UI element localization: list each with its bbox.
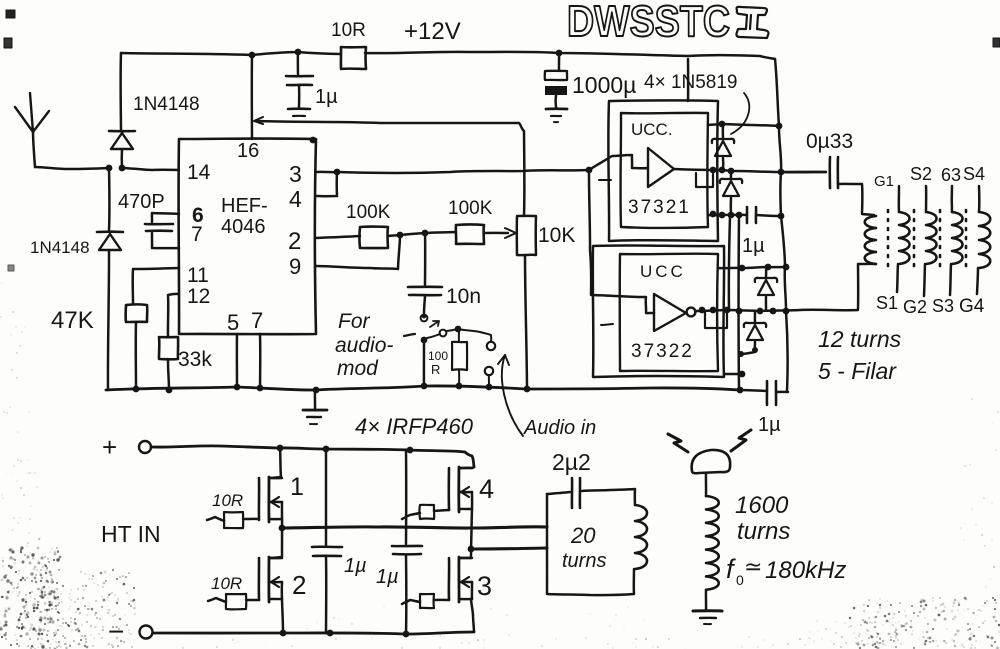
transistor Q3 IRFP460	[461, 549, 471, 558]
wire pin7 to rail	[259, 334, 262, 388]
svg-text:9: 9	[289, 254, 301, 279]
wire U2 output	[674, 169, 826, 172]
wire vertical mid-bus a	[729, 216, 730, 310]
wire antenna to node	[35, 167, 109, 169]
wire Q2 source to rail	[282, 599, 283, 633]
IC U2 UCC37321 outer box	[608, 100, 718, 241]
wire pin16 VDD	[251, 55, 254, 139]
svg-text:1N4148: 1N4148	[30, 238, 90, 257]
transistor Q4 IRFP460	[461, 467, 474, 468]
svg-text:20: 20	[570, 523, 596, 548]
transformer secondary S4G4	[978, 186, 981, 212]
wire input U2	[589, 155, 648, 170]
svg-text:4046: 4046	[221, 216, 266, 238]
capacitor 470p	[152, 213, 179, 222]
node D4 bottom	[752, 347, 758, 353]
wire input U3	[589, 170, 654, 313]
svg-text:0µ33: 0µ33	[806, 130, 853, 153]
wire pin11 to 47K	[133, 268, 179, 304]
wire pin3	[316, 171, 337, 174]
ground (1000µ)	[546, 107, 567, 110]
node rail dots	[133, 386, 140, 393]
svg-text:−: −	[108, 616, 124, 647]
svg-text:3: 3	[477, 571, 492, 601]
svg-text:37322: 37322	[631, 341, 694, 362]
arrow Audio in	[502, 355, 523, 436]
resistor R 47K	[126, 304, 148, 322]
node driver input split	[586, 167, 593, 174]
coil secondary 1600 turns	[705, 473, 708, 496]
node VDD junction dots	[249, 52, 256, 59]
wire primary bottom	[858, 264, 876, 309]
svg-text:Audio in: Audio in	[523, 417, 596, 439]
capacitor 0µ33	[781, 171, 826, 174]
transistor Q2 IRFP460	[269, 528, 282, 558]
resistor R 100R	[458, 329, 460, 341]
svg-text:+: +	[102, 432, 117, 462]
svg-text:47K: 47K	[51, 307, 94, 334]
wire jumper vertical	[423, 343, 426, 386]
node output B dots	[699, 307, 706, 314]
wire U3 output	[695, 310, 858, 311]
wire Q1 source to node A	[281, 519, 284, 528]
svg-text:HT IN: HT IN	[101, 521, 161, 547]
node bridge A	[279, 525, 286, 532]
ground (secondary)	[693, 609, 722, 612]
svg-text:G4: G4	[959, 296, 985, 317]
node y215 dots	[710, 211, 717, 218]
capacitor 10n	[424, 233, 427, 285]
resistor Rg2 10R	[246, 599, 259, 602]
svg-text:4: 4	[479, 474, 494, 504]
IC U1 HEF-4046 box	[179, 138, 316, 334]
svg-text:7: 7	[191, 223, 203, 246]
node HT- dots	[280, 630, 287, 637]
svg-text:180kHz: 180kHz	[765, 557, 846, 584]
svg-text:S1: S1	[876, 293, 898, 313]
wire wiper to pot	[484, 232, 508, 235]
wire 47K to rail	[134, 322, 137, 389]
diode D3 1N5819	[765, 267, 768, 277]
svg-text:37321: 37321	[628, 197, 691, 218]
capacitor 1µ (lower bypass)	[766, 381, 769, 405]
resistor R 10R (supply)	[341, 47, 366, 69]
transformer secondary G3S3	[951, 186, 954, 212]
node antenna junction	[106, 165, 113, 172]
svg-text:2: 2	[288, 228, 301, 255]
svg-text:12 turns: 12 turns	[818, 326, 902, 352]
svg-text:10K: 10K	[538, 224, 575, 247]
diode D4 1N5819	[754, 311, 757, 322]
transformer secondary S2G2	[925, 186, 928, 212]
svg-text:2: 2	[292, 570, 306, 600]
wire Q3 source to rail	[471, 599, 474, 632]
jumper circle top	[421, 315, 428, 322]
diode D5 1N4148 (upper)	[119, 53, 122, 130]
svg-text:100: 100	[428, 349, 448, 363]
svg-text:audio-: audio-	[335, 334, 393, 357]
svg-text:11: 11	[187, 264, 209, 287]
svg-text:1600: 1600	[735, 492, 789, 519]
svg-text:1µ: 1µ	[758, 414, 781, 436]
svg-text:16: 16	[237, 140, 259, 162]
svg-text:33k: 33k	[178, 348, 212, 371]
spark right	[731, 430, 751, 451]
ground (main)	[314, 391, 317, 409]
svg-text:1µ: 1µ	[376, 566, 399, 588]
svg-text:+12V: +12V	[404, 18, 461, 45]
stub lead left of jumper	[404, 334, 415, 336]
wire y215 (U2 gnd/bypass)	[708, 213, 747, 216]
svg-text:G1: G1	[874, 173, 894, 190]
svg-text:≃: ≃	[744, 554, 762, 579]
IC U2 inner box	[621, 113, 708, 228]
svg-text:12: 12	[187, 285, 210, 308]
svg-text:turns: turns	[562, 550, 606, 572]
node output A dots	[710, 167, 717, 174]
svg-text:S3: S3	[932, 296, 954, 316]
wire VCO control (y120)	[256, 121, 524, 216]
transistor Q1 IRFP460	[269, 448, 281, 478]
buffer triangle U2	[648, 148, 674, 187]
wire U3 gnd (y374)	[724, 373, 742, 376]
wire 100R node to audio circle	[458, 329, 491, 341]
svg-text:470P: 470P	[118, 191, 165, 213]
svg-text:1N4148: 1N4148	[133, 94, 200, 115]
wire jumper to circle	[427, 334, 440, 338]
svg-text:1: 1	[290, 473, 304, 501]
stub enable U2	[599, 179, 611, 181]
node pin16 corner dot	[310, 137, 317, 144]
wire 100K to node	[388, 235, 400, 236]
wire 33k to rail	[168, 359, 169, 390]
svg-text:14: 14	[187, 161, 211, 184]
svg-text:1µ: 1µ	[742, 235, 765, 257]
svg-text:2µ2: 2µ2	[552, 449, 591, 475]
wire pin4 loop	[317, 173, 337, 196]
wire node to 100K2	[400, 233, 425, 235]
svg-text:1µ: 1µ	[315, 86, 338, 108]
svg-text:4× IRFP460: 4× IRFP460	[355, 414, 474, 439]
svg-text:100K: 100K	[346, 202, 391, 223]
label II roman numeral	[736, 7, 768, 38]
antenna	[33, 132, 35, 167]
svg-text:UCC: UCC	[640, 262, 686, 281]
wire pin3 to driver input	[337, 170, 589, 173]
svg-text:4: 4	[289, 186, 302, 212]
resistor Rg4	[434, 510, 449, 511]
IC U3 UCC37322 outer box	[593, 245, 724, 377]
wire node to pin14	[122, 168, 179, 170]
audio connector circle upper	[487, 342, 495, 350]
wire +12V top rail	[121, 52, 341, 55]
svg-text:3: 3	[289, 161, 302, 187]
node y374	[739, 371, 746, 378]
capacitor 1000µ	[558, 53, 561, 70]
toroid topload	[692, 450, 731, 473]
stub enable U3	[601, 324, 613, 325]
svg-text:S2: S2	[910, 164, 932, 184]
svg-text:mod: mod	[337, 357, 379, 380]
wire VCC feed U2	[687, 59, 690, 101]
svg-text:f: f	[726, 554, 736, 584]
svg-text:R: R	[431, 362, 440, 377]
capacitor 1µ (upper bypass)	[746, 207, 749, 223]
transformer core dashes	[887, 210, 890, 272]
jumper circle mid	[440, 330, 447, 337]
capacitor C2 1µ (bus)	[405, 450, 408, 544]
potentiometer 10K	[517, 216, 536, 255]
svg-text:1000µ: 1000µ	[572, 72, 636, 98]
wire node A to tank	[282, 527, 547, 528]
wire HT+ rail	[151, 446, 474, 467]
node pin3 junction	[334, 169, 341, 176]
svg-text:UCC.: UCC.	[631, 120, 673, 139]
wire ground rail (bottom of logic)	[106, 386, 740, 390]
wire pin12 to 33k	[168, 294, 179, 336]
resistor R 33k	[159, 337, 178, 359]
svg-text:63: 63	[941, 165, 961, 185]
svg-text:100K: 100K	[448, 198, 493, 219]
primary tank loop 20 turns	[547, 492, 570, 494]
svg-text:1µ: 1µ	[344, 555, 367, 577]
capacitor 2µ2	[571, 478, 574, 508]
resistor R 100K (first)	[359, 227, 388, 248]
resistor R 100K (second)	[456, 225, 484, 244]
inverter bubble U3	[687, 308, 696, 317]
svg-text:7: 7	[251, 308, 263, 333]
node 100R top	[455, 326, 462, 333]
svg-text:10n: 10n	[446, 285, 481, 308]
diode D6 1N4148 (lower)	[108, 168, 111, 231]
wire node B to tank	[471, 548, 547, 549]
wire pin9 loop	[316, 237, 400, 269]
bracket U3 output	[705, 312, 727, 328]
arrow to diodes	[731, 93, 749, 134]
node bridge B	[468, 546, 475, 553]
capacitor 1µ (supply filter)	[297, 52, 300, 74]
arrow into pin16 node	[254, 117, 263, 124]
svg-text:S4: S4	[963, 164, 985, 184]
transformer primary winding	[865, 216, 876, 264]
wire +12V right bus	[775, 59, 788, 391]
wire Q4 source to node B	[471, 509, 472, 548]
svg-text:DWSSTC: DWSSTC	[567, 0, 730, 46]
wire circle to 100R top	[446, 329, 457, 331]
svg-text:For: For	[338, 310, 371, 333]
svg-text:5: 5	[227, 310, 239, 335]
IC U3 inner box	[620, 254, 718, 372]
node after first 100K	[397, 232, 404, 239]
capacitor C1 1µ (bus)	[325, 449, 328, 545]
arrow jumper	[430, 321, 439, 327]
svg-text:0: 0	[736, 572, 744, 588]
wire U2 VCC pin	[708, 124, 722, 125]
wire U3 VCC pin (y267)	[718, 267, 788, 268]
node jumper mid	[421, 337, 428, 344]
audio connector circle lower	[485, 367, 493, 375]
diode D2 1N5819	[730, 172, 733, 178]
wire HT- rail	[153, 632, 474, 634]
svg-text:4× 1N5819: 4× 1N5819	[644, 72, 738, 93]
svg-text:10R: 10R	[212, 491, 243, 510]
wire rail to lower bypass	[740, 390, 767, 391]
svg-text:10R: 10R	[211, 574, 242, 593]
svg-text:G2: G2	[903, 297, 927, 317]
svg-text:10R: 10R	[331, 20, 366, 41]
resistor Rg1 10R	[243, 518, 259, 521]
svg-text:turns: turns	[737, 518, 790, 545]
ground (supply 1µ)	[288, 107, 310, 110]
node y267 dots	[739, 265, 746, 272]
node VCC pin dots	[719, 121, 726, 128]
svg-text:HEF-: HEF-	[221, 195, 268, 217]
wire pin2	[316, 236, 360, 238]
node HT+ dots	[277, 445, 284, 452]
spark left	[668, 434, 688, 452]
diode D1 1N5819	[722, 126, 725, 138]
svg-text:5 - Filar: 5 - Filar	[818, 358, 897, 384]
transformer secondary G1S1	[898, 186, 901, 212]
bracket U2 output	[696, 173, 713, 187]
wire vertical mid-bus b	[737, 215, 740, 389]
buffer triangle U3	[654, 294, 686, 331]
wire pin5 to rail	[236, 334, 239, 387]
resistor Rg3	[434, 599, 449, 602]
wire pot to rail	[525, 255, 527, 389]
